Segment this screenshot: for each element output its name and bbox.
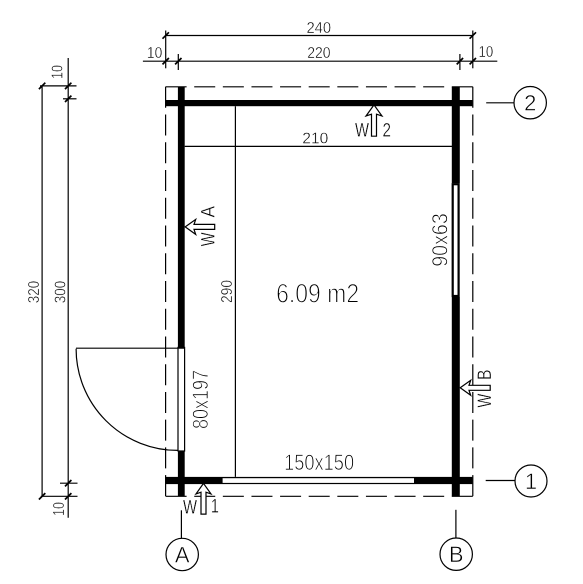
svg-text:320: 320 [26, 281, 43, 304]
svg-text:220: 220 [307, 45, 330, 62]
svg-text:2: 2 [524, 91, 536, 116]
svg-text:150x150: 150x150 [284, 450, 354, 475]
svg-text:6.09 m2: 6.09 m2 [276, 279, 359, 309]
svg-text:A: A [199, 206, 220, 218]
svg-text:W: W [199, 232, 220, 246]
svg-text:10: 10 [147, 45, 162, 62]
svg-text:1: 1 [525, 469, 537, 494]
svg-text:10: 10 [479, 44, 494, 61]
svg-text:240: 240 [306, 20, 331, 37]
svg-text:2: 2 [382, 121, 391, 142]
svg-text:210: 210 [302, 130, 328, 147]
svg-text:80x197: 80x197 [188, 370, 213, 429]
svg-text:90x63: 90x63 [428, 213, 453, 267]
svg-text:B: B [449, 542, 464, 567]
svg-text:1: 1 [211, 497, 219, 518]
svg-text:B: B [475, 370, 496, 381]
svg-text:300: 300 [52, 281, 69, 304]
svg-text:W: W [355, 121, 369, 142]
svg-text:10: 10 [50, 65, 67, 79]
svg-text:W: W [183, 497, 197, 518]
svg-text:W: W [475, 394, 496, 408]
svg-text:A: A [175, 543, 190, 568]
svg-text:290: 290 [219, 280, 236, 303]
svg-text:10: 10 [51, 502, 68, 516]
